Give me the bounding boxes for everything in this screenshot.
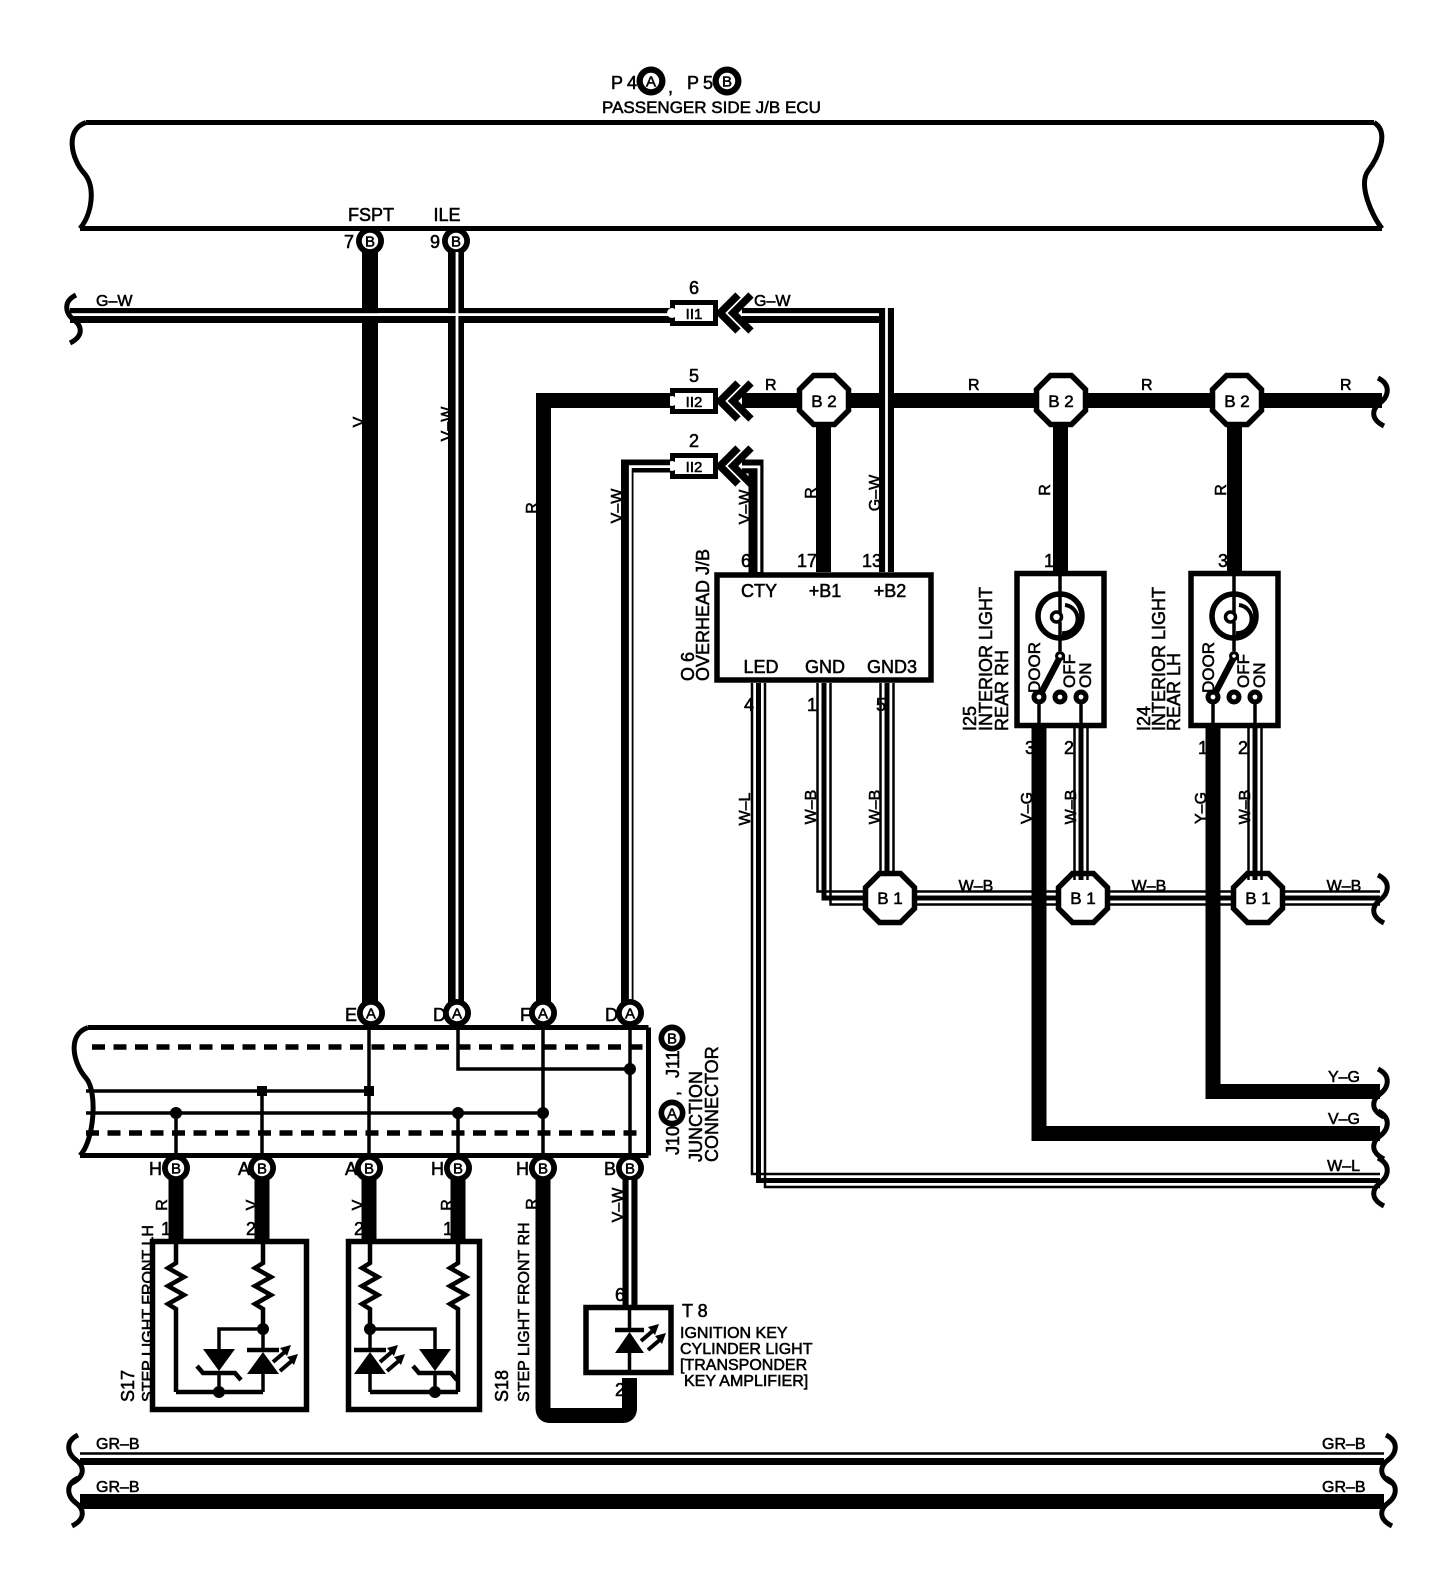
pin H(B) x543: [516, 1154, 557, 1182]
svg-text:2: 2: [246, 1219, 256, 1239]
svg-text:W–L: W–L: [737, 792, 754, 825]
svg-text:17: 17: [797, 551, 817, 571]
break symbol left of G-W: [67, 295, 81, 343]
octagon connector B1 #1: [866, 874, 915, 923]
svg-text:6: 6: [689, 278, 699, 298]
svg-text:R: R: [1037, 484, 1054, 496]
svg-text:W–B: W–B: [1063, 790, 1080, 825]
svg-text:V–W: V–W: [610, 1187, 627, 1223]
svg-text:W–L: W–L: [1327, 1158, 1360, 1175]
svg-text:R: R: [968, 377, 980, 394]
pin B(B) x630: [604, 1154, 644, 1182]
svg-text:,: ,: [663, 1091, 683, 1096]
pin 1 / pin 2 numbers below I24: [1198, 738, 1248, 758]
wire G-W vertical to +B2 (over R bus): [867, 308, 894, 572]
svg-text:II1: II1: [686, 306, 703, 323]
svg-text:9: 9: [430, 232, 440, 252]
octagon connector B2 #3: [1213, 376, 1262, 572]
svg-text:R: R: [765, 377, 777, 394]
svg-text:B: B: [722, 74, 732, 91]
LED diode in T8: [615, 1310, 666, 1371]
break symbol right of R bus: [1374, 378, 1388, 426]
ECU block label P4 A , P5 B: [602, 67, 821, 118]
svg-text:4: 4: [627, 73, 637, 93]
svg-text:GR–B: GR–B: [96, 1479, 140, 1496]
wire V-W from II2 pin2 left and down to junction D(A): [609, 460, 670, 1006]
svg-text:B: B: [453, 1161, 463, 1178]
svg-text:V–W: V–W: [737, 489, 754, 525]
wire R from H(B)176 to S17 pin 1: [154, 1180, 184, 1242]
svg-text:PASSENGER SIDE J/B ECU: PASSENGER SIDE J/B ECU: [602, 98, 821, 117]
svg-text:II2: II2: [686, 459, 703, 476]
wire GR-B lower: [80, 1479, 1384, 1509]
svg-text:W–B: W–B: [803, 790, 820, 825]
svg-text:2: 2: [354, 1219, 364, 1239]
wire R from H(B)458 to S18 pin 1: [439, 1180, 466, 1242]
node J11 (B) label: [659, 1025, 686, 1079]
pin H(B) x176: [149, 1154, 190, 1182]
label JUNCTION CONNECTOR: [686, 1046, 722, 1162]
svg-text:D: D: [605, 1005, 618, 1025]
svg-text:P: P: [687, 73, 699, 93]
svg-text:ILE: ILE: [433, 205, 460, 225]
svg-text:R: R: [1141, 377, 1153, 394]
component I25 INTERIOR LIGHT REAR RH: [960, 551, 1104, 731]
door switch I25: [1025, 642, 1095, 723]
svg-text:P: P: [611, 73, 623, 93]
svg-text:S17: S17: [118, 1370, 138, 1402]
svg-text:A: A: [646, 74, 656, 91]
svg-text:1: 1: [807, 695, 817, 715]
wire W-L from LED pin 4 down then right to edge break: [737, 683, 1380, 1187]
connector II2 (pin 2): [667, 431, 718, 479]
svg-text:A: A: [625, 1006, 635, 1023]
svg-text:S18: S18: [492, 1370, 512, 1402]
pin F(A): [520, 999, 557, 1027]
wire V-W from II2 pin2 arrows right and down to CTY: [737, 460, 764, 573]
svg-text:CONNECTOR: CONNECTOR: [702, 1046, 722, 1162]
svg-text:LED: LED: [743, 657, 778, 677]
svg-text:B 1: B 1: [877, 889, 903, 908]
octagon connector B1 #2: [1059, 874, 1108, 923]
svg-text:B: B: [451, 234, 461, 251]
svg-text:GND3: GND3: [867, 657, 917, 677]
svg-text:B: B: [667, 1031, 677, 1048]
svg-text:B 1: B 1: [1245, 889, 1271, 908]
svg-text:R: R: [154, 1199, 171, 1211]
svg-text:1: 1: [1044, 551, 1054, 571]
svg-text:CYLINDER LIGHT: CYLINDER LIGHT: [680, 1341, 813, 1358]
internal link L1 (D(A) to B(B) net V-W): [458, 1030, 636, 1075]
pin E(A): [345, 999, 385, 1027]
resistor R1 in S18: [362, 1241, 378, 1329]
arrow chevrons at II1: [720, 295, 751, 331]
svg-text:STEP LIGHT FRONT RH: STEP LIGHT FRONT RH: [516, 1222, 533, 1402]
svg-text:,: ,: [668, 77, 673, 97]
octagon connector B1 #3: [1234, 874, 1283, 923]
svg-text:H: H: [149, 1159, 162, 1179]
pin D(A) second: [605, 999, 644, 1027]
wire V-G from I25 pin 3 down then right to edge break: [1019, 728, 1380, 1134]
resistor R2 in S17: [255, 1241, 271, 1329]
svg-text:B: B: [625, 1161, 635, 1178]
wire GR-B upper: [80, 1436, 1384, 1462]
arrow chevrons at II2 pin 2: [720, 448, 751, 484]
svg-text:1: 1: [161, 1219, 171, 1239]
bottom rail in S18: [370, 1386, 458, 1398]
svg-text:6: 6: [741, 551, 751, 571]
svg-text:B 2: B 2: [811, 392, 837, 411]
dashed row B inside junction band: [86, 1130, 644, 1136]
svg-text:R: R: [439, 1199, 456, 1211]
svg-text:7: 7: [344, 232, 354, 252]
svg-text:GR–B: GR–B: [1322, 1479, 1366, 1496]
component I24 INTERIOR LIGHT REAR LH: [1134, 551, 1278, 731]
node dot and link to zener in S18: [364, 1323, 435, 1349]
svg-text:H: H: [516, 1159, 529, 1179]
svg-text:5: 5: [689, 366, 699, 386]
break symbol right of V-G: [1374, 1111, 1388, 1159]
svg-text:DOOR: DOOR: [1199, 642, 1218, 693]
wire Y-G from I24 pin 1 down then right to edge break: [1193, 728, 1380, 1092]
svg-text:V: V: [244, 1199, 261, 1210]
svg-text:B: B: [604, 1159, 616, 1179]
svg-text:R: R: [524, 1198, 541, 1210]
wire R bus horizontal (to right edge break): [742, 377, 1382, 408]
wire V from A(B)369 to S18 pin 2: [350, 1180, 377, 1242]
svg-text:V–G: V–G: [1328, 1111, 1360, 1128]
zener diode in S17: [197, 1349, 241, 1392]
LED diode in S17: [247, 1329, 298, 1392]
pin A(B) x262: [238, 1154, 276, 1182]
pin 1 GND: [805, 657, 845, 715]
svg-text:G–W: G–W: [96, 293, 133, 310]
label T8 IGNITION KEY CYLINDER LIGHT: [680, 1301, 813, 1390]
svg-text:OVERHEAD J/B: OVERHEAD J/B: [693, 549, 713, 681]
svg-text:W–B: W–B: [959, 878, 994, 895]
break symbol right of W-B bus: [1374, 875, 1388, 923]
junction connector band J10/J11: [74, 1028, 648, 1156]
svg-text:CTY: CTY: [741, 581, 777, 601]
resistor R1 in S17: [168, 1241, 184, 1392]
component S17 STEP LIGHT FRONT LH box: [118, 1225, 307, 1409]
svg-text:1: 1: [443, 1219, 453, 1239]
pin D(A) first: [433, 999, 471, 1027]
svg-text:W–B: W–B: [867, 790, 884, 825]
svg-text:R: R: [524, 502, 541, 514]
connector II2 (pin 5): [667, 366, 718, 414]
svg-text:REAR LH: REAR LH: [1164, 653, 1184, 731]
svg-text:V–G: V–G: [1019, 792, 1036, 824]
svg-text:Y–G: Y–G: [1193, 792, 1210, 824]
arrow chevrons at II2 pin 5: [720, 383, 751, 419]
bulb lamp I24: [1212, 576, 1256, 651]
svg-text:B: B: [538, 1161, 548, 1178]
wire W-B from GND pin 1 down then right to B1 #1: [803, 683, 866, 905]
pin H(B) x458: [431, 1154, 472, 1182]
svg-text:H: H: [431, 1159, 444, 1179]
svg-text:DOOR: DOOR: [1025, 642, 1044, 693]
break symbols of GR-B lower: [69, 1478, 1396, 1526]
svg-text:J11: J11: [663, 1050, 683, 1078]
wire V-W vertical (ILE to junction D(A)): [439, 252, 464, 1005]
wire V from A(B)262 to S17 pin 2: [244, 1180, 270, 1242]
svg-text:ON: ON: [1076, 663, 1095, 689]
pin FSPT 7(B): [344, 205, 394, 255]
svg-text:A: A: [538, 1006, 548, 1023]
svg-text:FSPT: FSPT: [348, 205, 394, 225]
svg-text:13: 13: [862, 551, 882, 571]
pin 4 LED: [743, 657, 778, 715]
svg-text:Y–G: Y–G: [1328, 1069, 1360, 1086]
resistor R2 in S18: [450, 1241, 466, 1392]
svg-text:W–B: W–B: [1327, 878, 1362, 895]
internal vertical wires of junction band: [176, 1030, 630, 1155]
door switch I24: [1199, 642, 1269, 723]
svg-text:+B1: +B1: [809, 581, 842, 601]
wire G-W from II1 arrows right and down to +B2: [742, 293, 894, 323]
wire R from H(B)543 down, right, up to T8 pin 2: [524, 1180, 630, 1416]
pin 17 +B1: [797, 551, 841, 601]
bus band: PASSENGER SIDE J/B ECU: [72, 123, 1382, 229]
svg-text:E: E: [345, 1005, 357, 1025]
pin 6 CTY: [741, 551, 777, 601]
LED diode in S18: [354, 1329, 405, 1392]
component O6 OVERHEAD J/B box: [678, 549, 931, 681]
svg-text:GR–B: GR–B: [1322, 1436, 1366, 1453]
svg-text:GND: GND: [805, 657, 845, 677]
svg-text:2: 2: [689, 431, 699, 451]
svg-text:R: R: [803, 487, 820, 499]
svg-text:W–B: W–B: [1237, 790, 1254, 825]
svg-text:+B2: +B2: [874, 581, 907, 601]
node dot and link to zener in S17: [219, 1323, 269, 1349]
octagon connector B2 #2: [1037, 376, 1086, 572]
pin ILE 9(B): [430, 205, 470, 255]
svg-text:V: V: [351, 416, 368, 427]
wire W-B from I24 pin 2 down to B1 #3 top: [1237, 728, 1262, 880]
svg-text:STEP LIGHT FRONT LH: STEP LIGHT FRONT LH: [140, 1225, 157, 1402]
svg-text:[TRANSPONDER: [TRANSPONDER: [680, 1357, 807, 1374]
node J10 (A) label: [659, 1091, 686, 1155]
break symbols of GR-B upper: [69, 1435, 1396, 1483]
svg-text:A: A: [452, 1006, 462, 1023]
svg-text:REAR RH: REAR RH: [992, 650, 1012, 731]
internal link L3 (F(A) to H(B) net R): [86, 1107, 549, 1119]
svg-text:W–B: W–B: [1132, 878, 1167, 895]
svg-text:A: A: [667, 1106, 677, 1123]
bulb lamp I25: [1038, 576, 1082, 651]
svg-text:3: 3: [1218, 551, 1228, 571]
pin 13 +B2: [862, 551, 906, 601]
svg-text:B 1: B 1: [1070, 889, 1096, 908]
wire V vertical (FSPT to junction E(A)): [351, 252, 378, 1005]
svg-text:II2: II2: [686, 394, 703, 411]
svg-text:2: 2: [615, 1380, 625, 1400]
connector II1 (pin 6): [667, 278, 718, 326]
svg-text:B: B: [364, 1161, 374, 1178]
G-W stripe restored over V and V-W crossings: [362, 313, 464, 316]
svg-text:V–W: V–W: [609, 488, 626, 524]
svg-text:G–W: G–W: [867, 474, 884, 511]
svg-text:B: B: [365, 234, 375, 251]
wire W-B from I25 pin 2 down to B1 #2 top: [1063, 728, 1088, 880]
svg-text:V: V: [350, 1199, 367, 1210]
svg-text:KEY AMPLIFIER]: KEY AMPLIFIER]: [684, 1373, 808, 1390]
svg-text:T 8: T 8: [682, 1301, 708, 1321]
break symbol right of Y-G: [1374, 1069, 1388, 1117]
component S18 STEP LIGHT FRONT RH box: [349, 1222, 534, 1409]
pin 5 GND3: [867, 657, 917, 715]
dashed row A inside junction band: [92, 1044, 644, 1050]
svg-text:IGNITION KEY: IGNITION KEY: [680, 1325, 788, 1342]
svg-text:J10: J10: [663, 1126, 683, 1155]
svg-text:G–W: G–W: [754, 293, 791, 310]
svg-text:R: R: [1213, 484, 1230, 496]
zener diode in S18: [413, 1349, 457, 1392]
svg-text:5: 5: [703, 73, 713, 93]
wire W-B bus between B1 connectors to right edge break: [866, 878, 1380, 905]
svg-text:2: 2: [1238, 738, 1248, 758]
component T8 IGNITION KEY CYLINDER LIGHT box: [586, 1308, 671, 1373]
svg-text:R: R: [1340, 377, 1352, 394]
wire G-W horizontal from left break to II1: [70, 293, 672, 323]
svg-text:B: B: [257, 1161, 267, 1178]
svg-text:B 2: B 2: [1224, 392, 1250, 411]
wire W-B from GND3 pin 5 down to B1 #1 top: [867, 683, 894, 880]
wire V-W from B(B)630 to T8 pin 6: [610, 1180, 638, 1400]
svg-text:V–W: V–W: [439, 406, 456, 442]
pin A(B) x369: [345, 1154, 383, 1182]
svg-text:GR–B: GR–B: [96, 1436, 140, 1453]
break symbol right of W-L: [1374, 1158, 1388, 1206]
internal link L2 (E(A) to A(B) net V): [86, 1086, 374, 1096]
bottom rail in S17: [176, 1386, 263, 1398]
svg-text:A: A: [366, 1006, 376, 1023]
pin 3 / pin 2 numbers below I25: [1025, 738, 1074, 758]
svg-text:ON: ON: [1250, 663, 1269, 689]
svg-text:B 2: B 2: [1048, 392, 1074, 411]
svg-text:B: B: [171, 1161, 181, 1178]
octagon connector B2 #1: [800, 376, 849, 573]
wire R from II2 pin5 left and down to junction F(A): [524, 393, 670, 1005]
svg-text:2: 2: [1064, 738, 1074, 758]
svg-text:6: 6: [615, 1285, 625, 1305]
